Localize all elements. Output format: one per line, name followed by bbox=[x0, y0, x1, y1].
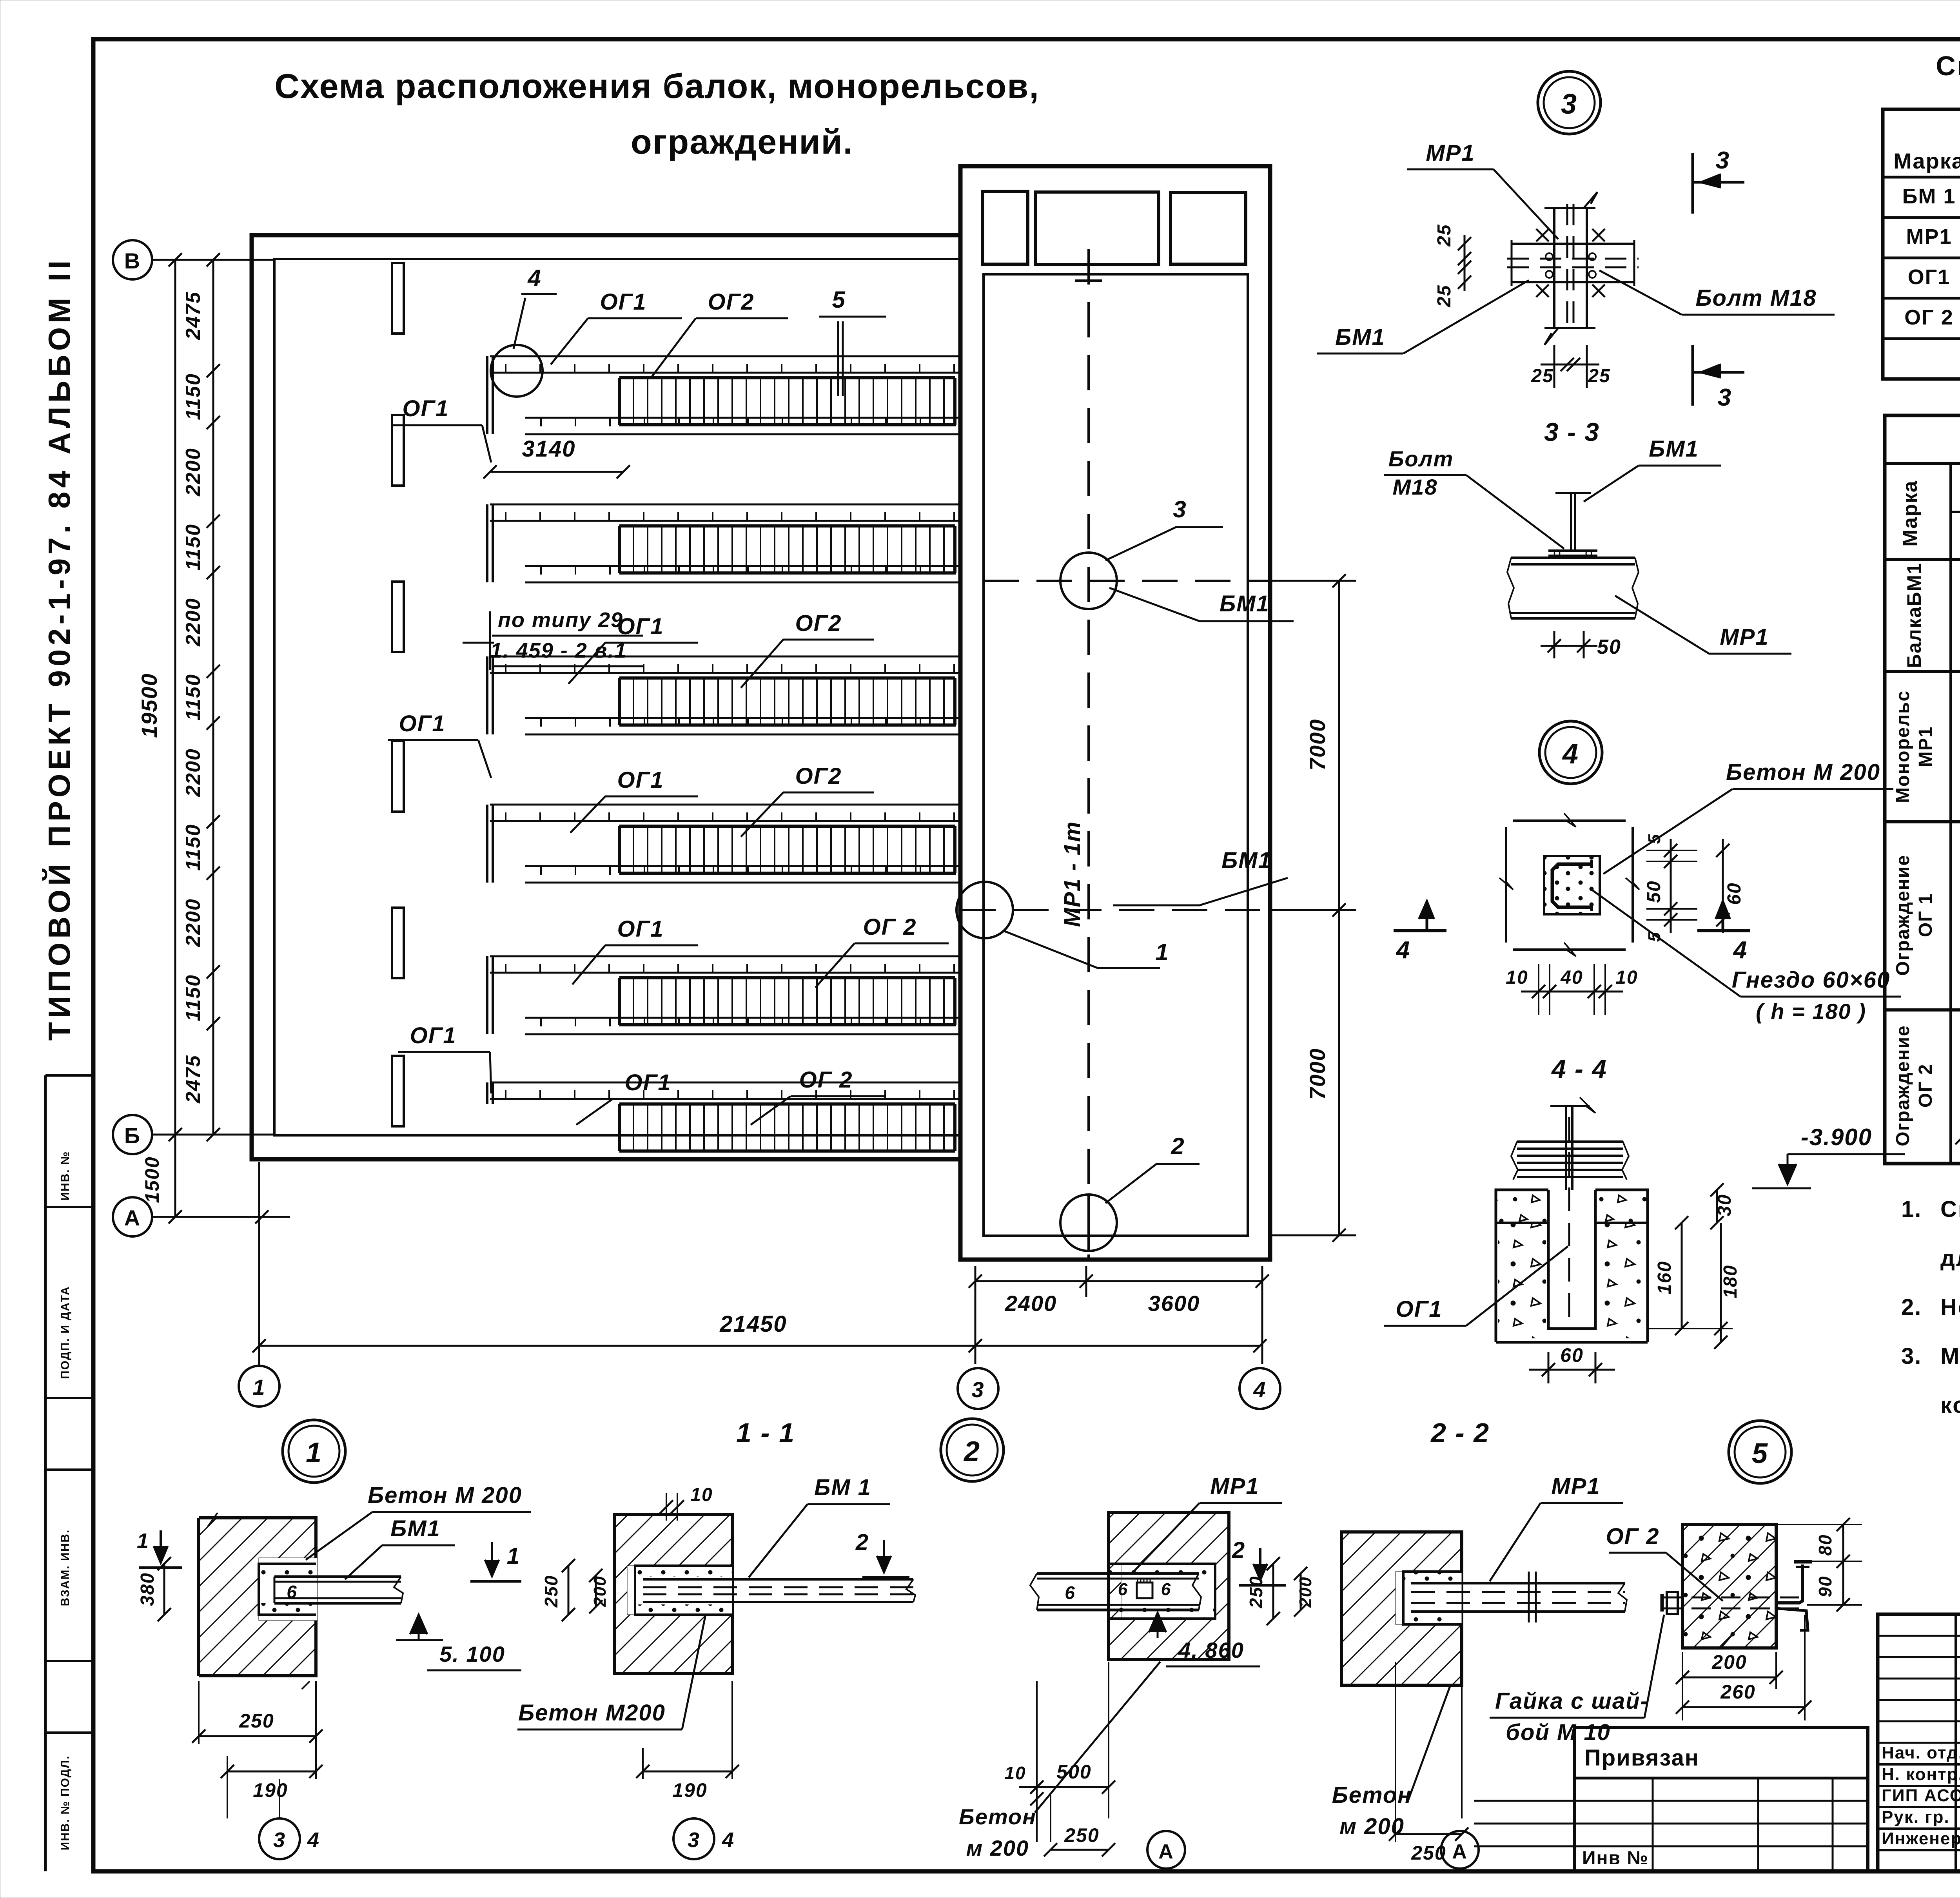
axis circle 1 bbox=[239, 1366, 279, 1407]
axis circle Б bbox=[113, 1115, 152, 1154]
detail A: concrete pocket dotted bbox=[259, 1564, 316, 1615]
plan bay 2: walkway ОГ1 upper bbox=[490, 504, 960, 506]
detail D: beam МР1 dashed bbox=[1411, 1582, 1625, 1584]
privyazan table bbox=[1574, 1728, 1868, 1871]
svg-text:25: 25 bbox=[1588, 366, 1610, 386]
svg-text:25: 25 bbox=[1434, 224, 1455, 247]
svg-text:1: 1 bbox=[252, 1375, 265, 1399]
4-4: pocket U bbox=[1548, 1190, 1595, 1329]
detail 4: dims 10 40 10 bbox=[1538, 964, 1539, 1015]
detail 4: dims 5 50 5 60 bbox=[1646, 850, 1697, 851]
svg-text:Ограждение: Ограждение bbox=[1893, 1025, 1913, 1146]
svg-text:Монорельс: Монорельс bbox=[1893, 690, 1913, 803]
plan bay 2: ladder ОГ2 (monorail access hatch) bbox=[619, 524, 955, 528]
section mark 1 (A) right bbox=[491, 1542, 493, 1572]
leader БМ1 bottom bbox=[1113, 878, 1288, 905]
svg-text:10: 10 bbox=[1615, 967, 1638, 988]
plan bay 2: walkway ОГ1 lower bbox=[525, 565, 960, 567]
svg-text:Бетон М 200: Бетон М 200 bbox=[1726, 760, 1880, 785]
4-4: post bbox=[1565, 1105, 1567, 1190]
svg-text:Марка: Марка bbox=[1899, 480, 1922, 547]
svg-text:ОГ1: ОГ1 bbox=[617, 916, 664, 942]
detail A: beam bbox=[274, 1575, 401, 1578]
svg-text:ОГ 2: ОГ 2 bbox=[1606, 1524, 1659, 1549]
svg-text:4: 4 bbox=[307, 1828, 320, 1852]
section mark 3 upper bbox=[1691, 153, 1694, 214]
dim 7000 + 7000 right of hall bbox=[1338, 581, 1340, 1235]
axis circle А (C) bbox=[1147, 1831, 1185, 1869]
svg-text:19500: 19500 bbox=[137, 673, 162, 738]
svg-text:30: 30 bbox=[1714, 1194, 1735, 1216]
svg-text:Нач. отд.: Нач. отд. bbox=[1882, 1743, 1960, 1762]
plan bay 6: ladder ОГ2 (monorail access hatch) bbox=[619, 1102, 955, 1106]
svg-text:Рук. гр.: Рук. гр. bbox=[1882, 1807, 1950, 1827]
svg-text:1150: 1150 bbox=[182, 373, 205, 420]
4-4: dims 30 160 180 bbox=[1716, 1190, 1718, 1223]
svg-text:180: 180 bbox=[1720, 1265, 1741, 1298]
vedomost outer bbox=[1885, 415, 1960, 1164]
svg-text:10: 10 bbox=[690, 1485, 713, 1505]
svg-text:6: 6 bbox=[1161, 1580, 1171, 1599]
svg-text:2: 2 bbox=[855, 1530, 869, 1555]
detail E: anchor bolt bbox=[1662, 1597, 1803, 1599]
svg-text:БМ1: БМ1 bbox=[1221, 848, 1272, 873]
section bubble 5 bbox=[1729, 1421, 1791, 1483]
left margin stamp column bbox=[44, 1075, 47, 1871]
detail 4: embedded channel bbox=[1552, 864, 1592, 907]
svg-text:40: 40 bbox=[1560, 967, 1583, 988]
detail bubble 3 bbox=[1538, 71, 1601, 134]
title block: signature table bbox=[1878, 1614, 1960, 1871]
dims 250 200 (B) bbox=[568, 1566, 570, 1615]
svg-text:25: 25 bbox=[1531, 366, 1553, 386]
svg-text:В: В bbox=[124, 248, 141, 273]
svg-text:90: 90 bbox=[1815, 1575, 1835, 1597]
detail 3: beam БМ1 horizontal bbox=[1512, 243, 1634, 245]
svg-text:200: 200 bbox=[1711, 1651, 1747, 1673]
svg-text:250: 250 bbox=[1246, 1576, 1266, 1609]
svg-text:5: 5 bbox=[1645, 834, 1664, 844]
svg-text:ОГ1: ОГ1 bbox=[617, 767, 664, 793]
svg-text:ОГ1: ОГ1 bbox=[403, 396, 449, 421]
svg-text:380: 380 bbox=[137, 1572, 158, 1606]
plan: left block outer wall bbox=[252, 235, 960, 1159]
svg-text:( h = 180 ): ( h = 180 ) bbox=[1756, 999, 1866, 1024]
svg-text:Бетон: Бетон bbox=[1332, 1782, 1412, 1808]
dimension chain 19500 bbox=[174, 260, 176, 1217]
plan: column slats bbox=[392, 263, 404, 334]
plan bay 5: wall stub bbox=[486, 956, 488, 1034]
svg-text:2200: 2200 bbox=[182, 748, 205, 797]
svg-text:1: 1 bbox=[1155, 939, 1169, 965]
svg-text:3: 3 bbox=[273, 1828, 286, 1852]
svg-text:А: А bbox=[124, 1206, 141, 1230]
svg-text:Ограждение: Ограждение bbox=[1893, 854, 1913, 976]
detail B: wall hatched bbox=[615, 1515, 732, 1673]
svg-text:БМ 1: БМ 1 bbox=[1902, 185, 1956, 208]
svg-text:4: 4 bbox=[722, 1828, 735, 1852]
svg-text:4. 860: 4. 860 bbox=[1178, 1638, 1244, 1662]
dims 250 200 (C) bbox=[1272, 1564, 1274, 1619]
plan bay 5: walkway ОГ1 upper bbox=[490, 955, 960, 957]
dim 3140 in bay2 bbox=[490, 471, 623, 473]
svg-text:4: 4 bbox=[1396, 937, 1410, 964]
detail A: wall hatched bbox=[199, 1518, 316, 1564]
svg-text:ГИП АСО: ГИП АСО bbox=[1882, 1786, 1960, 1805]
svg-text:3: 3 bbox=[971, 1377, 984, 1402]
detail B: beam dashed bbox=[643, 1578, 913, 1581]
specification table grid bbox=[1883, 109, 1960, 379]
svg-text:ИНВ. № ПОДЛ.: ИНВ. № ПОДЛ. bbox=[59, 1755, 72, 1851]
svg-text:6: 6 bbox=[287, 1582, 298, 1602]
svg-text:ОГ1: ОГ1 bbox=[617, 614, 664, 639]
svg-text:50: 50 bbox=[1597, 636, 1621, 658]
svg-text:Бетон: Бетон bbox=[959, 1804, 1036, 1829]
plan bay 1: ladder ОГ2 (monorail access hatch) bbox=[619, 376, 955, 379]
section mark 1 (A) left bbox=[160, 1530, 162, 1558]
svg-text:А: А bbox=[1452, 1840, 1468, 1863]
3-3: I-beam БМ1 on top bbox=[1555, 492, 1591, 494]
plan bay 1: walkway ОГ1 upper bbox=[490, 355, 960, 357]
svg-text:1150: 1150 bbox=[182, 824, 205, 871]
detail C: beam МР1 bbox=[1037, 1572, 1199, 1575]
svg-text:ОГ1: ОГ1 bbox=[600, 289, 647, 315]
svg-text:3 - 3: 3 - 3 bbox=[1544, 417, 1600, 446]
vedomost header grid bbox=[1949, 464, 1952, 1164]
plan: left block inner wall bbox=[274, 259, 960, 1135]
svg-text:Болт М18: Болт М18 bbox=[1695, 285, 1817, 311]
plan bay 5: walkway ОГ1 lower bbox=[525, 1017, 960, 1019]
leader БМ1 top bbox=[1109, 588, 1294, 621]
detail B: pocket bbox=[635, 1566, 732, 1615]
svg-text:2475: 2475 bbox=[182, 291, 205, 340]
section marks 4-4 bbox=[1394, 929, 1446, 932]
svg-text:1150: 1150 bbox=[182, 974, 205, 1021]
4-4: angle stack bbox=[1517, 1140, 1623, 1143]
svg-text:25: 25 bbox=[1434, 285, 1455, 307]
plan bay 4: walkway ОГ1 upper bbox=[490, 804, 960, 806]
dim 2400 / 3600 below hall bbox=[975, 1266, 976, 1297]
section bubble 2 bbox=[941, 1419, 1004, 1481]
svg-text:3140: 3140 bbox=[522, 436, 575, 462]
svg-text:4: 4 bbox=[1562, 738, 1579, 770]
axis circle А (D) bbox=[1441, 1831, 1479, 1869]
svg-text:БМ1: БМ1 bbox=[1220, 591, 1270, 616]
svg-text:ОГ2: ОГ2 bbox=[795, 763, 842, 789]
plan: machine hall outer wall bbox=[960, 166, 1270, 1260]
svg-text:250: 250 bbox=[541, 1575, 561, 1608]
svg-text:3: 3 bbox=[1561, 89, 1577, 120]
dims 200 260 (E) bbox=[1682, 1652, 1683, 1720]
svg-text:Болт: Болт bbox=[1388, 446, 1454, 471]
svg-text:ИНВ. №: ИНВ. № bbox=[59, 1151, 72, 1200]
svg-text:ОГ 2: ОГ 2 bbox=[1904, 306, 1954, 329]
svg-text:1150: 1150 bbox=[182, 524, 205, 571]
svg-text:3600: 3600 bbox=[1148, 1291, 1200, 1316]
elevation 4.860 (C) bbox=[1149, 1613, 1166, 1632]
svg-text:ТИПОВОЙ ПРОЕКТ 902-1-97. 84: ТИПОВОЙ ПРОЕКТ 902-1-97. 84 АЛЬБОМ II bbox=[42, 257, 76, 1041]
detail 3: dims 25 25 bottom bbox=[1553, 345, 1555, 388]
detail 4: slab square bbox=[1513, 819, 1626, 822]
svg-text:2200: 2200 bbox=[182, 598, 205, 647]
plan bay 4: ladder ОГ2 (monorail access hatch) bbox=[619, 825, 955, 828]
svg-text:БМ1: БМ1 bbox=[1335, 324, 1385, 350]
dim 250 (D) bbox=[1395, 1662, 1396, 1842]
svg-text:ОГ 2: ОГ 2 bbox=[799, 1067, 853, 1093]
plan: machine hall inner line bbox=[984, 274, 1248, 1236]
plan bay 2: wall stub bbox=[486, 504, 488, 582]
labels bay1: 4, ОГ1, ОГ2, 5 bbox=[491, 345, 543, 397]
svg-text:2200: 2200 bbox=[182, 448, 205, 497]
svg-text:ОГ 2: ОГ 2 bbox=[1915, 1064, 1936, 1108]
svg-text:21450: 21450 bbox=[719, 1311, 787, 1337]
svg-text:6: 6 bbox=[1065, 1583, 1076, 1603]
svg-text:4: 4 bbox=[1733, 937, 1748, 964]
svg-text:6: 6 bbox=[1118, 1580, 1128, 1599]
svg-text:МР1: МР1 bbox=[1426, 140, 1475, 166]
svg-text:50: 50 bbox=[1644, 880, 1664, 903]
svg-text:Бетон М200: Бетон М200 bbox=[518, 1700, 666, 1726]
svg-text:190: 190 bbox=[672, 1779, 707, 1801]
svg-text:Привязан: Привязан bbox=[1584, 1745, 1699, 1771]
dims 10 500 250 (C) bbox=[1036, 1681, 1038, 1842]
svg-text:4: 4 bbox=[527, 265, 541, 291]
svg-text:1: 1 bbox=[137, 1529, 149, 1553]
svg-text:Схема расположения балок, м: Схема расположения балок, монорельсов, bbox=[274, 67, 1040, 105]
detail mark circle 1 bbox=[956, 882, 1013, 938]
detail C: wall hatched bbox=[1109, 1512, 1229, 1660]
plan bay 3: walkway ОГ1 upper bbox=[490, 656, 960, 658]
svg-text:ОГ1: ОГ1 bbox=[399, 711, 446, 736]
privyazan left rows extension bbox=[1474, 1800, 1574, 1802]
plan bay 1: walkway ОГ1 lower bbox=[525, 417, 960, 419]
svg-text:Бетон М 200: Бетон М 200 bbox=[368, 1483, 522, 1508]
svg-text:МР1: МР1 bbox=[1915, 726, 1936, 767]
svg-text:А: А bbox=[1158, 1840, 1174, 1863]
svg-text:3: 3 bbox=[688, 1828, 700, 1852]
svg-text:4: 4 bbox=[1253, 1377, 1266, 1402]
section mark 2 (B) bbox=[883, 1540, 885, 1568]
svg-text:ВЗАМ. ИНВ.: ВЗАМ. ИНВ. bbox=[59, 1529, 72, 1606]
dim 380 (A) bbox=[163, 1564, 165, 1615]
svg-text:190: 190 bbox=[253, 1779, 288, 1801]
svg-text:МР1: МР1 bbox=[1551, 1474, 1600, 1499]
plan bay 4: walkway ОГ1 lower bbox=[525, 865, 960, 867]
svg-text:-3.900: -3.900 bbox=[1801, 1124, 1872, 1150]
beam БМ1 axis top (dashed) bbox=[984, 580, 1270, 582]
detail 4: pocket with concrete bbox=[1544, 856, 1600, 914]
svg-text:Б: Б bbox=[124, 1123, 141, 1148]
svg-text:коррозийным битумным: коррозийным битумным лаком за 2 раза. bbox=[1940, 1392, 1960, 1418]
dim 10 (B) bbox=[666, 1493, 667, 1521]
axis circles 3 4 (A) bbox=[259, 1818, 300, 1859]
svg-text:Марка: Марка bbox=[1893, 149, 1960, 173]
svg-text:ОГ1: ОГ1 bbox=[1396, 1296, 1443, 1322]
svg-text:60: 60 bbox=[1560, 1344, 1584, 1366]
svg-text:160: 160 bbox=[1654, 1261, 1675, 1294]
dims 80 90 (E) bbox=[1776, 1524, 1862, 1525]
svg-text:3.: 3. bbox=[1901, 1343, 1922, 1369]
svg-text:1 - 1: 1 - 1 bbox=[736, 1418, 795, 1448]
svg-text:2: 2 bbox=[963, 1436, 980, 1467]
plan bay 6: wall stub bbox=[486, 1082, 488, 1104]
svg-text:ОГ1: ОГ1 bbox=[410, 1023, 457, 1048]
svg-text:80: 80 bbox=[1815, 1534, 1835, 1555]
svg-text:Инженер: Инженер bbox=[1882, 1829, 1960, 1848]
svg-text:для балок и монорельсов,: для балок и монорельсов, типа Э42 для ог… bbox=[1940, 1245, 1960, 1271]
svg-text:7000: 7000 bbox=[1305, 1048, 1330, 1100]
svg-text:1.: 1. bbox=[1901, 1196, 1922, 1222]
svg-text:1: 1 bbox=[306, 1437, 322, 1468]
dim 21450 bbox=[259, 1345, 1260, 1347]
svg-text:5: 5 bbox=[832, 286, 846, 313]
svg-text:2200: 2200 bbox=[182, 898, 205, 947]
svg-text:Гнездо 60×60: Гнездо 60×60 bbox=[1732, 967, 1891, 993]
svg-text:5: 5 bbox=[1645, 932, 1664, 942]
detail bubble 4 bbox=[1539, 721, 1602, 784]
axis circle 3 bbox=[958, 1368, 998, 1409]
svg-text:1: 1 bbox=[507, 1543, 520, 1569]
detail 3: bolt marks bbox=[1536, 229, 1549, 241]
axis circle В bbox=[113, 240, 152, 279]
svg-text:ОГ2: ОГ2 bbox=[708, 289, 755, 315]
leader to 2 bbox=[1105, 1164, 1200, 1203]
svg-text:ПОДП. И ДАТА: ПОДП. И ДАТА bbox=[59, 1286, 72, 1379]
plan bay 4: wall stub bbox=[486, 805, 488, 883]
svg-text:2: 2 bbox=[1232, 1537, 1245, 1563]
section mark 3 lower bbox=[1691, 345, 1694, 406]
svg-text:Н. контр.: Н. контр. bbox=[1882, 1765, 1960, 1784]
3-3: dim 50 bbox=[1553, 631, 1555, 658]
svg-text:ОГ2: ОГ2 bbox=[795, 611, 842, 636]
plan bay 3: wall stub bbox=[486, 656, 488, 734]
svg-text:7000: 7000 bbox=[1305, 719, 1330, 771]
svg-text:3: 3 bbox=[1718, 384, 1732, 411]
svg-text:200: 200 bbox=[590, 1575, 610, 1607]
svg-text:ОГ 1: ОГ 1 bbox=[1915, 893, 1936, 937]
detail mark circle 2 bbox=[1060, 1195, 1117, 1251]
svg-text:250: 250 bbox=[239, 1710, 274, 1732]
elevation 5.100 bbox=[410, 1615, 427, 1634]
plan: hall roof windows bbox=[983, 191, 1028, 264]
svg-text:ОГ 2: ОГ 2 bbox=[863, 914, 916, 940]
svg-text:Спецификация к схеме р: Спецификация к схеме расположенной bbox=[1936, 51, 1960, 81]
svg-text:2: 2 bbox=[1171, 1133, 1185, 1159]
svg-text:3: 3 bbox=[1173, 496, 1187, 522]
svg-text:4 - 4: 4 - 4 bbox=[1551, 1054, 1607, 1083]
plan bay 5: ladder ОГ2 (monorail access hatch) bbox=[619, 976, 955, 979]
detail D: pocket bbox=[1403, 1572, 1462, 1624]
svg-text:2400: 2400 bbox=[1005, 1291, 1057, 1316]
svg-text:Неоговоренные сварные: Неоговоренные сварные швы hш = 4 мм. bbox=[1940, 1294, 1960, 1320]
svg-text:250: 250 bbox=[1064, 1824, 1099, 1846]
svg-text:БМ1: БМ1 bbox=[390, 1516, 441, 1541]
leader to 1 bbox=[1004, 931, 1160, 968]
svg-text:Сварку производить: Сварку производить электродами типа Э42А bbox=[1940, 1196, 1960, 1222]
svg-text:МР1: МР1 bbox=[1906, 225, 1952, 248]
detail mark circle 3 bbox=[1060, 553, 1117, 609]
detail D: wall hatched bbox=[1341, 1532, 1462, 1685]
detail C: pocket concrete bbox=[1109, 1564, 1215, 1619]
svg-text:БалкаБМ1: БалкаБМ1 bbox=[1903, 562, 1925, 668]
section mark 2 (C) bbox=[1259, 1548, 1261, 1575]
axis circle 4 bbox=[1240, 1368, 1280, 1409]
svg-text:260: 260 bbox=[1720, 1681, 1755, 1703]
svg-text:ограждений.: ограждений. bbox=[631, 122, 853, 161]
3-3: beam МР1 bbox=[1511, 557, 1635, 559]
svg-text:МР1: МР1 bbox=[1210, 1474, 1259, 1499]
monorail МР1-1т axis (dashed) bbox=[1087, 249, 1090, 1260]
svg-text:3: 3 bbox=[1716, 147, 1730, 174]
svg-text:бой М 10: бой М 10 bbox=[1506, 1720, 1611, 1745]
svg-text:Металлические конструкци: Металлические конструкции окрасить анти- bbox=[1940, 1343, 1960, 1369]
svg-text:2 - 2: 2 - 2 bbox=[1430, 1418, 1490, 1448]
svg-text:10: 10 bbox=[1004, 1763, 1026, 1783]
leader to 3 bbox=[1105, 527, 1223, 560]
section bubble 1 bbox=[283, 1420, 345, 1483]
svg-text:1150: 1150 bbox=[182, 674, 205, 721]
svg-text:м 200: м 200 bbox=[966, 1836, 1029, 1860]
beam БМ1 axis bottom (dashed) bbox=[960, 909, 1270, 911]
svg-text:60: 60 bbox=[1724, 882, 1745, 905]
axis circles 3 4 (B) bbox=[673, 1818, 714, 1859]
svg-text:5: 5 bbox=[1752, 1438, 1768, 1469]
svg-text:10: 10 bbox=[1506, 967, 1528, 988]
detail 3: monorail МР1 vertical beam bbox=[1553, 208, 1555, 328]
svg-text:ОГ1: ОГ1 bbox=[1908, 265, 1951, 289]
svg-text:Инв №: Инв № bbox=[1582, 1848, 1649, 1869]
svg-text:БМ1: БМ1 bbox=[1649, 436, 1699, 462]
axis circle А bbox=[113, 1197, 152, 1236]
svg-text:5. 100: 5. 100 bbox=[439, 1642, 505, 1666]
4-4: foundation concrete bbox=[1496, 1190, 1548, 1223]
plan bay 3: ladder ОГ2 (monorail access hatch) bbox=[619, 676, 955, 680]
dims 250 190 (A) bbox=[198, 1681, 200, 1744]
plan bay 3: walkway ОГ1 lower bbox=[525, 717, 960, 719]
detail E: concrete block bbox=[1682, 1525, 1776, 1648]
4-4: dim 60 bbox=[1548, 1352, 1550, 1383]
svg-text:2.: 2. bbox=[1901, 1294, 1922, 1320]
plan bay 1: wall stub bbox=[486, 356, 488, 434]
dim 190 (B) bbox=[642, 1748, 644, 1779]
plan bay 6: walkway ОГ1 upper bbox=[490, 1082, 960, 1084]
svg-text:200: 200 bbox=[1296, 1576, 1315, 1608]
svg-text:БМ 1: БМ 1 bbox=[814, 1475, 871, 1500]
svg-text:2475: 2475 bbox=[182, 1055, 205, 1104]
svg-text:ОГ1: ОГ1 bbox=[625, 1070, 671, 1095]
svg-text:МР1: МР1 bbox=[1720, 624, 1769, 650]
svg-text:1500: 1500 bbox=[141, 1156, 163, 1203]
svg-text:Гайка с шай-: Гайка с шай- bbox=[1495, 1688, 1649, 1714]
svg-text:М18: М18 bbox=[1393, 475, 1438, 499]
detail E: bracket ОГ2 bbox=[1776, 1564, 1802, 1603]
detail 3: dims 25 25 left bbox=[1464, 235, 1466, 291]
svg-text:по типу 29: по типу 29 bbox=[498, 608, 623, 632]
